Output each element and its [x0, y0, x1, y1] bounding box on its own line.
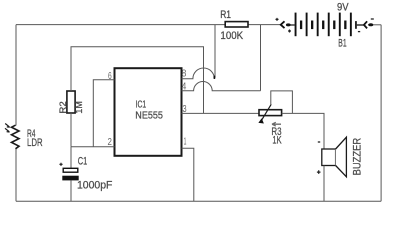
- LDR R4: [5, 124, 19, 149]
- resistor R2: [67, 91, 75, 113]
- battery clip + (left): [276, 18, 295, 33]
- wire pin3/R3 to buzzer: [282, 113, 324, 149]
- wire left rail upper: [15, 25, 17, 126]
- capacitor C1: [59, 163, 78, 181]
- battery B1: [295, 2, 352, 50]
- wire R2 top to pin3 node: [71, 47, 204, 114]
- zigzag: [12, 125, 20, 149]
- svg-text:100K: 100K: [220, 30, 243, 42]
- wire pin 1: [182, 148, 194, 201]
- wiper diagonal: [261, 104, 271, 121]
- svg-text:R1: R1: [220, 9, 231, 21]
- svg-text:9V: 9V: [337, 2, 349, 14]
- resistor R1: [225, 22, 248, 27]
- wire bottom rail: [16, 200, 381, 202]
- wire pin 2: [71, 146, 115, 148]
- wire pin 3: [182, 112, 260, 114]
- wire right rail: [380, 25, 382, 202]
- tall plates: [295, 13, 297, 37]
- svg-text:1M: 1M: [74, 101, 84, 113]
- adjust arrow: [272, 122, 281, 126]
- svg-text:NE555: NE555: [135, 111, 163, 122]
- junction dot pin8/rail: [214, 76, 216, 79]
- wire pin 8 with hop: [182, 68, 215, 79]
- potentiometer R3: [259, 91, 293, 126]
- wire top rail right of R1: [248, 24, 281, 26]
- svg-text:IC1: IC1: [136, 99, 147, 110]
- svg-text:6: 6: [108, 71, 112, 82]
- buzzer LS1: [317, 137, 347, 177]
- wire pin 4 with hop: [182, 82, 261, 91]
- battery clip - (right): [355, 19, 374, 32]
- short plates: [300, 21, 302, 30]
- wire C1 bottom: [70, 180, 72, 201]
- wire junction vertical to pin 4: [260, 25, 262, 91]
- wire junction vertical to pin 8: [214, 25, 216, 78]
- svg-text:1: 1: [184, 137, 187, 148]
- svg-text:R2: R2: [58, 101, 68, 113]
- wire left rail lower: [15, 149, 17, 202]
- svg-text:BUZZER: BUZZER: [351, 138, 363, 176]
- svg-text:1000pF: 1000pF: [77, 179, 113, 191]
- wire junction to C1: [70, 147, 72, 168]
- IC U1 (IC1 NE555 box): [115, 68, 182, 156]
- svg-text:C1: C1: [78, 155, 88, 167]
- wire buzzer bottom: [323, 166, 325, 202]
- wire from clip to right rail: [373, 24, 381, 26]
- light arrows: [5, 124, 9, 132]
- wire R2 bottom: [70, 113, 72, 147]
- svg-text:LDR: LDR: [27, 137, 43, 149]
- wire top rail left segment: [16, 24, 225, 26]
- wire pin 6: [93, 80, 114, 147]
- wiper loop wire: [271, 91, 293, 114]
- svg-text:8: 8: [182, 69, 187, 80]
- svg-text:1K: 1K: [272, 135, 282, 147]
- svg-text:B1: B1: [338, 38, 346, 50]
